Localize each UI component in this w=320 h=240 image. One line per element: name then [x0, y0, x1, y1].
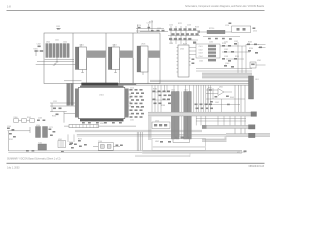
- svg-text:C230: C230: [209, 42, 213, 44]
- regulator U500: [177, 45, 191, 77]
- svg-text:C171: C171: [49, 127, 53, 129]
- svg-text:C160: C160: [7, 126, 11, 128]
- wire: [36, 61, 79, 65]
- connector J202: [184, 90, 192, 140]
- svg-text:R221: R221: [178, 23, 182, 25]
- op-amp U601: [205, 87, 245, 113]
- capacitor C210: [137, 23, 154, 32]
- main data bus: [82, 83, 137, 86]
- footer date: [7, 168, 20, 170]
- svg-text:C532: C532: [234, 41, 238, 43]
- SRAM bank U400 pin bars: [45, 40, 74, 63]
- svg-text:U500: U500: [180, 49, 184, 51]
- connector J501: [249, 76, 259, 99]
- wire: [64, 58, 148, 84]
- svg-text:C505: C505: [199, 61, 203, 63]
- vertical bus band: [148, 116, 152, 140]
- svg-text:R172: R172: [78, 138, 82, 140]
- svg-text:Y100: Y100: [98, 141, 102, 143]
- svg-text:C110: C110: [130, 88, 134, 90]
- svg-text:R530: R530: [222, 43, 226, 45]
- svg-text:R188: R188: [161, 105, 165, 107]
- svg-text:U301: U301: [80, 45, 84, 47]
- svg-text:U150: U150: [155, 121, 159, 123]
- svg-text:U302: U302: [113, 45, 117, 47]
- connector J201: [171, 90, 179, 140]
- svg-text:C432: C432: [37, 44, 41, 46]
- svg-text:C131: C131: [130, 120, 134, 122]
- wire: [141, 132, 143, 150]
- audio codec section box U802: [152, 137, 206, 151]
- speaker parts C171: [26, 127, 87, 152]
- svg-text:U541: U541: [257, 60, 261, 62]
- svg-text:U303: U303: [141, 44, 145, 46]
- clock parts row: [68, 134, 74, 144]
- bypass capacitors C501 bank: [191, 44, 221, 64]
- svg-text:C228: C228: [169, 43, 173, 45]
- svg-text:J501: J501: [255, 79, 259, 81]
- capacitor C399: [56, 26, 61, 30]
- svg-text:R161: R161: [9, 139, 13, 141]
- page number 1-8: [7, 4, 11, 8]
- connector J102: [67, 83, 74, 105]
- wire: [8, 127, 31, 151]
- header rule: [7, 9, 265, 11]
- long bus pair: [77, 133, 270, 137]
- svg-text:C210: C210: [137, 25, 141, 27]
- bias parts R170: [69, 142, 82, 149]
- buffer U150: [152, 121, 170, 129]
- footer part number: [249, 166, 265, 168]
- microphone parts C160: [7, 126, 16, 141]
- svg-text:Q540: Q540: [225, 63, 229, 65]
- svg-text:C402: C402: [63, 42, 67, 44]
- display bus band: [202, 125, 255, 129]
- flash U302: [108, 44, 133, 73]
- svg-text:J202: J202: [184, 90, 188, 92]
- svg-text:U160: U160: [36, 125, 40, 127]
- wire: [152, 85, 245, 139]
- flash U301: [75, 44, 106, 73]
- parts below U101: [82, 122, 122, 124]
- svg-text:C124: C124: [138, 107, 142, 109]
- flash U303: [137, 44, 160, 76]
- svg-text:C223: C223: [187, 25, 191, 27]
- svg-text:C401: C401: [55, 40, 59, 42]
- footer sheet title: [7, 157, 61, 160]
- svg-text:R162: R162: [27, 117, 31, 119]
- svg-text:U102: U102: [100, 123, 104, 125]
- svg-text:C504: C504: [199, 56, 203, 58]
- svg-text:U802: U802: [155, 141, 159, 143]
- svg-text:U400: U400: [46, 42, 50, 44]
- svg-text:C503: C503: [199, 53, 203, 55]
- svg-text:U210: U210: [253, 31, 257, 33]
- svg-text:U601: U601: [219, 87, 223, 89]
- bottom bus band: [142, 150, 246, 154]
- wire: [136, 25, 164, 34]
- audio PA U160: [36, 125, 48, 138]
- keypad bus band: [148, 112, 257, 117]
- svg-text:C602: C602: [215, 102, 219, 104]
- wire: [75, 130, 202, 132]
- resistor R431: [34, 44, 44, 56]
- svg-text:C502: C502: [199, 49, 203, 51]
- svg-text:Schematics, Component Location: Schematics, Component Location Diagrams,…: [185, 5, 265, 8]
- wire: [137, 116, 246, 151]
- header title: [185, 5, 265, 8]
- svg-text:RP200: RP200: [209, 28, 214, 30]
- memory section box: [44, 33, 160, 84]
- wire: [129, 90, 131, 114]
- filter row FL100: [14, 117, 46, 122]
- svg-text:C216: C216: [225, 25, 229, 27]
- svg-text:R536: R536: [249, 48, 253, 50]
- svg-text:C220: C220: [169, 25, 173, 27]
- horizontal bus wires mid: [136, 80, 252, 85]
- resistor pack RP200: [198, 28, 226, 34]
- microprocessor U101: [75, 86, 129, 122]
- IC U210: [225, 23, 257, 33]
- footer rule: [7, 162, 265, 164]
- svg-text:6881094C31-B: 6881094C31-B: [249, 166, 265, 168]
- outer loop wire: [135, 153, 190, 157]
- svg-text:C538: C538: [224, 56, 228, 58]
- svg-text:R431: R431: [34, 48, 38, 50]
- svg-text:R160: R160: [14, 117, 18, 119]
- svg-text:R601: R601: [208, 88, 212, 90]
- svg-text:C219: C219: [157, 28, 161, 30]
- svg-text:C163: C163: [38, 118, 42, 120]
- svg-text:C535: C535: [224, 49, 228, 51]
- svg-text:July 1, 2003: July 1, 2003: [7, 168, 20, 170]
- svg-text:R226: R226: [195, 27, 199, 29]
- audio return bus: [8, 151, 142, 152]
- discrete parts right block: [196, 41, 266, 73]
- svg-text:C399: C399: [56, 26, 60, 28]
- svg-text:SUMMARY VOCON Board Schematic: SUMMARY VOCON Board Schematic (Sheet 1 o…: [7, 157, 61, 160]
- power bus band: [202, 73, 252, 78]
- speaker driver U161: [58, 139, 66, 148]
- resistor R150: [52, 101, 62, 118]
- bus step band: [202, 136, 227, 141]
- svg-text:C151: C151: [53, 101, 57, 103]
- crystal Y100 module: [93, 141, 123, 150]
- latch U102: [64, 123, 136, 127]
- svg-text:R218: R218: [149, 22, 153, 24]
- svg-text:R533: R533: [248, 42, 252, 44]
- svg-text:C501: C501: [199, 46, 203, 48]
- wire: [203, 32, 240, 44]
- wire: [50, 103, 75, 123]
- svg-text:R150: R150: [52, 116, 56, 118]
- svg-text:T160: T160: [38, 142, 42, 144]
- svg-text:R603: R603: [230, 97, 234, 99]
- decoupling capacitor bank C110-C138: [130, 88, 145, 122]
- svg-text:U161: U161: [58, 139, 62, 141]
- transformer T160: [38, 142, 47, 150]
- svg-text:R539: R539: [235, 56, 239, 58]
- svg-text:1-8: 1-8: [7, 4, 11, 8]
- pull-up resistor grid R180: [152, 89, 171, 108]
- resistor network cluster R220: [140, 20, 200, 46]
